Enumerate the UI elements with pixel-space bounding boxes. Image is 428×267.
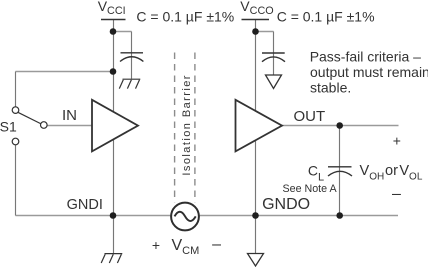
svg-text:C = 0.1 µF ±1%: C = 0.1 µF ±1% [277,8,375,24]
svg-text:+: + [152,237,160,253]
svg-text:VCCO: VCCO [240,0,273,17]
svg-text:Isolation Barrier: Isolation Barrier [181,74,193,176]
svg-text:VCM: VCM [172,237,200,257]
svg-text:C = 0.1 µF ±1%: C = 0.1 µF ±1% [136,8,234,24]
svg-text:stable.: stable. [310,79,351,95]
svg-text:VOHorVOL: VOHorVOL [360,163,423,182]
svg-text:–: – [392,185,401,202]
svg-text:CL: CL [308,163,324,184]
svg-text:GNDI: GNDI [67,197,103,213]
svg-text:IN: IN [62,107,77,124]
svg-text:Pass-fail criteria –: Pass-fail criteria – [310,48,421,64]
svg-text:S1: S1 [0,118,17,134]
svg-text:See Note A: See Note A [283,183,338,195]
svg-text:–: – [212,236,221,253]
svg-text:OUT: OUT [294,108,326,125]
svg-text:output must remain: output must remain [310,64,428,80]
svg-text:+: + [393,133,401,149]
svg-text:VCCI: VCCI [98,0,126,17]
svg-text:GNDO: GNDO [262,196,310,213]
